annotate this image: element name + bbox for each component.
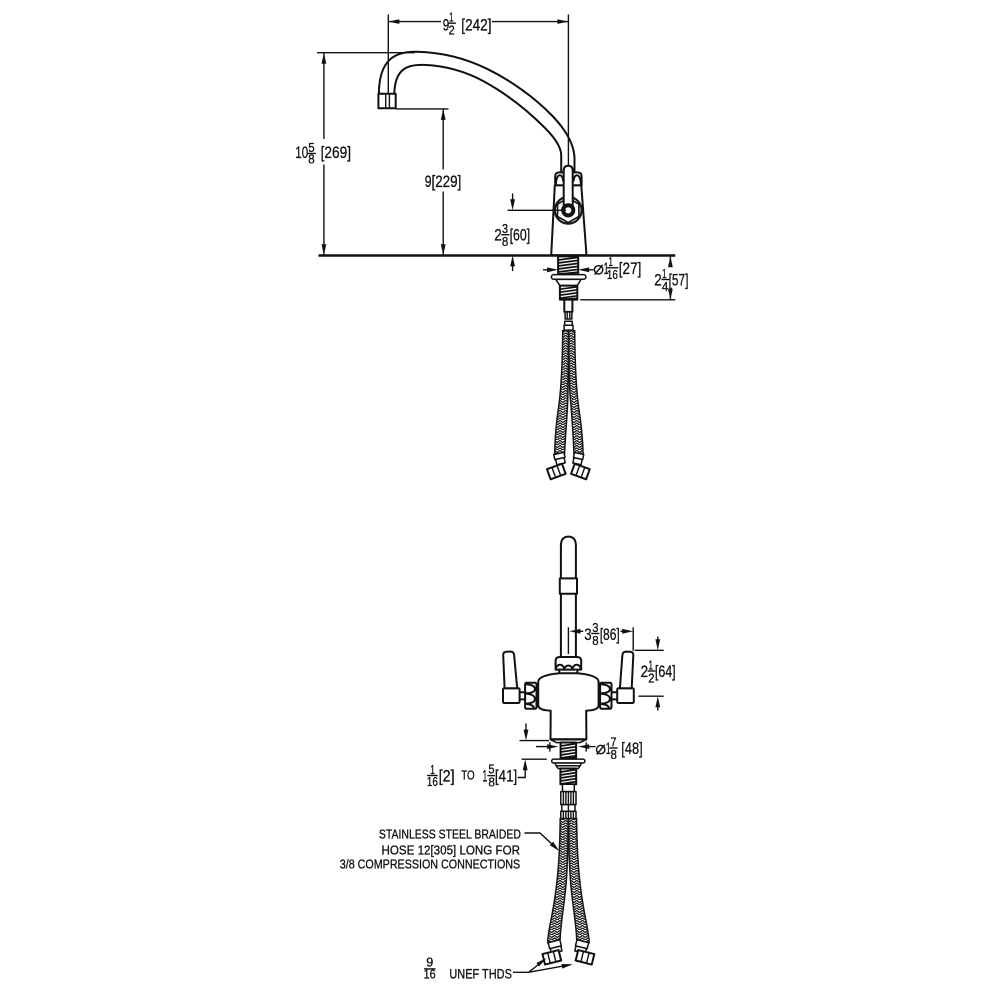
- hose coupling collar: [562, 805, 575, 812]
- body (front): [538, 673, 598, 739]
- base bottom line: [551, 738, 587, 740]
- leader from UNEF THDS to fittings: [513, 960, 570, 973]
- dim 2 3/8 leader to ball: [508, 209, 567, 211]
- hose left (side view): [555, 331, 569, 454]
- dim 2 1/2 top ext line: [635, 649, 664, 651]
- dim 2 3/8 bottom arrow: [512, 265, 514, 271]
- hose left end nut (front): [542, 950, 561, 964]
- svg-text:16: 16: [427, 774, 438, 789]
- hose left fitting bands (front): [548, 940, 562, 954]
- text 9 [229]: [425, 172, 462, 191]
- left port coupling nut: [525, 683, 536, 709]
- text 10 5/8 [269]: [295, 140, 351, 166]
- dim 9 1/2 arrow left: [388, 19, 399, 24]
- svg-text:[229]: [229]: [432, 172, 462, 191]
- bonnet nut: [556, 657, 582, 670]
- svg-text:10: 10: [295, 143, 308, 162]
- hex facets: [558, 198, 579, 223]
- dim 10 5/8 arrow down: [322, 244, 327, 255]
- spout ferrule band: [560, 578, 577, 593]
- svg-text:[48]: [48]: [621, 739, 642, 758]
- ball outer ring: [561, 203, 575, 217]
- svg-text:[269]: [269]: [321, 143, 351, 162]
- text dia 1 1/16 [27]: [594, 254, 641, 282]
- text 2 1/2 [64]: [641, 657, 676, 685]
- ext line centerline (right of 9 1/2): [567, 15, 569, 172]
- handle lever: [564, 166, 573, 206]
- ball inner: [565, 207, 571, 213]
- text 9 1/2 [242]: [443, 9, 492, 37]
- cap right ear arc: [574, 175, 581, 185]
- dim diameter 1 1/16 left arrow: [543, 269, 548, 271]
- dia 1 7/8 left arrow: [536, 746, 549, 748]
- dim 9 [229] line: [442, 109, 444, 255]
- dim 9 1/2 [242] line: [388, 21, 568, 23]
- svg-text:[41]: [41]: [495, 767, 517, 786]
- dim 1/16 TO top arrow: [525, 724, 527, 731]
- spout inner curve: [394, 65, 561, 173]
- hose left end nut: [547, 464, 566, 480]
- svg-text:9: 9: [425, 172, 432, 191]
- label stainless steel braided hose: [340, 827, 521, 871]
- mounting washer (front): [552, 759, 585, 763]
- dim 1/16 TO bottom ext line: [522, 758, 547, 760]
- dim 1/16 TO top ext line: [520, 740, 550, 742]
- svg-text:8: 8: [611, 747, 617, 762]
- ext line left of 9 1/2: [387, 15, 389, 95]
- svg-text:3: 3: [584, 625, 591, 644]
- dim 9 1/2 arrow right: [557, 19, 568, 24]
- mounting nut tier 2: [556, 766, 580, 769]
- right stub: [612, 692, 618, 699]
- hose coupling neck: [563, 784, 575, 791]
- deck line: [319, 254, 676, 257]
- ext line at spout outlet for 9 [229]: [396, 108, 449, 110]
- hose left fitting bands: [554, 452, 566, 465]
- svg-text:3/8 COMPRESSION CONNECTIONS: 3/8 COMPRESSION CONNECTIONS: [340, 858, 520, 872]
- svg-text:16: 16: [607, 267, 618, 282]
- left lever: [503, 652, 517, 689]
- hose coupling hex striped 2: [561, 811, 576, 818]
- dim 2 1/2 top arrow: [657, 637, 659, 641]
- svg-text:8: 8: [502, 234, 508, 249]
- right lever: [620, 652, 633, 689]
- svg-text:[27]: [27]: [619, 259, 642, 278]
- centerline ext inside tube: [567, 627, 569, 654]
- svg-text:2: 2: [648, 671, 654, 686]
- hose right fitting bands: [572, 453, 583, 465]
- text 3 3/8 [86]: [584, 620, 619, 648]
- svg-text:4: 4: [662, 279, 669, 294]
- shank threads upper: [558, 256, 578, 274]
- svg-text:2: 2: [449, 23, 455, 38]
- shank threads (front lower): [560, 769, 576, 785]
- coupling ring 1: [565, 312, 572, 319]
- hex boss circle: [555, 197, 582, 224]
- dim 10 5/8 arrow up: [322, 53, 327, 64]
- svg-text:[64]: [64]: [655, 662, 676, 681]
- right stem block: [617, 688, 634, 703]
- dim diameter 1 1/16 right arrow: [588, 269, 593, 271]
- dia 1 7/8 right tick: [585, 742, 587, 751]
- svg-text:[86]: [86]: [600, 625, 620, 644]
- hose left (front view): [548, 819, 569, 943]
- spout outer curve: [379, 52, 575, 173]
- svg-text:2: 2: [494, 226, 502, 245]
- leader from label to hose: [525, 833, 558, 849]
- neck band: [559, 670, 577, 674]
- spout tube lower: [561, 594, 576, 657]
- coupling ring 3: [564, 325, 573, 330]
- text 1/16 [2] TO 1 5/8 [41]: [427, 762, 517, 790]
- outlet tube below shank: [564, 300, 572, 312]
- svg-text:TO: TO: [461, 769, 475, 783]
- dim 2 1/2 bottom ext line: [639, 695, 664, 697]
- svg-text:8: 8: [592, 633, 598, 648]
- svg-text:UNEF THDS: UNEF THDS: [449, 966, 512, 981]
- svg-text:8: 8: [308, 151, 314, 166]
- mounting washer: [551, 275, 586, 280]
- hose right (front view): [569, 819, 590, 943]
- svg-text:2: 2: [641, 662, 649, 681]
- svg-text:2: 2: [654, 270, 662, 289]
- hose right end nut: [571, 464, 590, 480]
- svg-text:HOSE 12[305] LONG FOR: HOSE 12[305] LONG FOR: [382, 844, 521, 858]
- dim 9 arrow up: [441, 109, 446, 120]
- svg-text:STAINLESS STEEL BRAIDED: STAINLESS STEEL BRAIDED: [379, 827, 521, 841]
- spout tube with dome top: [561, 537, 576, 579]
- right port coupling nut: [600, 683, 611, 709]
- coupling ring 2: [565, 321, 573, 325]
- svg-text:[60]: [60]: [510, 226, 531, 245]
- ext line right of 3 3/8: [632, 627, 634, 651]
- hose right fitting bands (front): [574, 940, 588, 954]
- body cap (bonnet): [555, 172, 581, 185]
- dim 2 1/4 arrow up: [668, 256, 673, 267]
- dia 1 7/8 right arrow: [586, 746, 595, 748]
- mounting nut trapezoid: [556, 279, 581, 285]
- dim 2 1/4 bottom ext line: [580, 299, 675, 301]
- nozzle inner lines: [386, 94, 390, 109]
- dim 2 1/4 line: [669, 256, 671, 300]
- dim 10 5/8 line: [323, 53, 325, 256]
- text 2 1/4 [57]: [654, 266, 688, 294]
- hose right (side view): [569, 331, 583, 454]
- dim 2 1/4 arrow down: [668, 289, 673, 300]
- base lip: [551, 740, 586, 743]
- dim 2 1/2 bottom arrow: [657, 707, 659, 711]
- right port inner arcs: [601, 684, 610, 708]
- shank threads lower: [560, 286, 577, 300]
- cap left ear arc: [556, 175, 563, 185]
- dim 9 arrow down: [441, 244, 446, 255]
- dim 3 3/8 line and right arrow: [621, 630, 627, 632]
- dim 2 3/8 top arrow: [512, 194, 514, 200]
- shank threads (front upper): [561, 743, 577, 759]
- svg-text:[57]: [57]: [669, 270, 689, 289]
- dia 1 7/8 left tick: [549, 742, 551, 751]
- dim 1/16 TO bottom arrow and hook: [518, 770, 526, 778]
- svg-text:1: 1: [482, 767, 487, 786]
- ext line top for 10 5/8: [317, 52, 415, 54]
- bonnet scallop arcs: [556, 665, 581, 670]
- spout nozzle: [378, 94, 395, 109]
- left stem block: [503, 688, 520, 703]
- dim 3 3/8 arrow left at centerline: [569, 629, 580, 634]
- left port inner arcs: [526, 684, 535, 708]
- text 2 3/8 [60]: [494, 221, 530, 249]
- svg-text:[242]: [242]: [461, 16, 491, 35]
- svg-text:16: 16: [424, 967, 436, 982]
- mounting nut tier 1: [555, 763, 582, 766]
- text 9/16 UNEF THDS: [424, 955, 512, 982]
- hose coupling hex striped 1: [561, 792, 576, 805]
- tapered body: [551, 185, 586, 255]
- left stub: [520, 692, 526, 699]
- hose right end nut (front): [576, 950, 595, 964]
- svg-text:[2]: [2]: [439, 767, 455, 786]
- text dia 1 7/8 [48]: [597, 734, 643, 762]
